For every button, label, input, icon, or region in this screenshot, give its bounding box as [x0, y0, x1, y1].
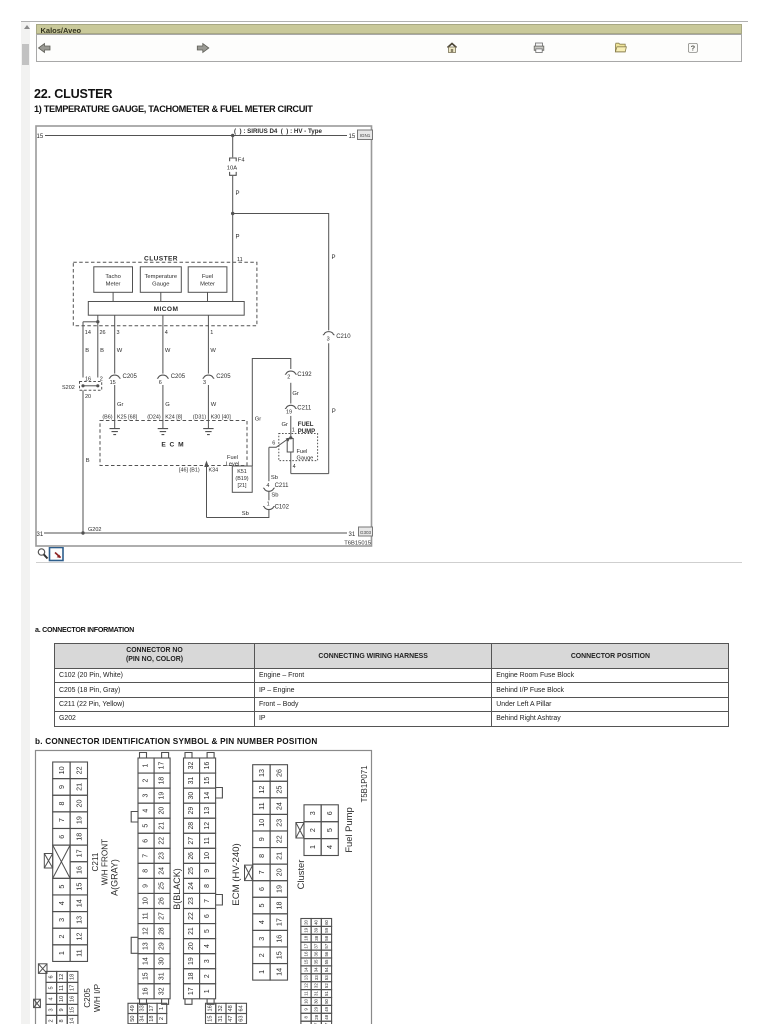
svg-text:10: 10 — [143, 897, 150, 905]
svg-text:3: 3 — [117, 330, 120, 336]
svg-text:29: 29 — [188, 807, 195, 815]
svg-text:30: 30 — [188, 792, 195, 800]
connector C102 — [263, 506, 274, 509]
svg-text:6: 6 — [143, 839, 150, 843]
svg-text:15: 15 — [37, 134, 44, 140]
svg-text:P: P — [332, 255, 336, 261]
wire C205 to ECM K25, colour Gr — [114, 385, 116, 428]
connector K51 alternate pin box — [232, 466, 252, 492]
svg-text:19: 19 — [74, 816, 83, 824]
wire to pin 14 drop — [83, 321, 98, 323]
svg-text:2: 2 — [159, 1017, 165, 1020]
svg-text:54: 54 — [324, 967, 329, 972]
scrollbar thumb — [22, 44, 29, 65]
svg-text:18: 18 — [274, 902, 283, 910]
svg-text:59: 59 — [324, 927, 329, 932]
svg-text:15: 15 — [110, 380, 116, 386]
wire MICOM pin 3 (W) — [114, 315, 116, 373]
svg-text:C102: C102 — [275, 504, 290, 510]
connector C211 W/H FRONT pin grid — [53, 762, 88, 961]
svg-text:63: 63 — [238, 1015, 244, 1021]
wire splice bus S202 — [83, 385, 98, 387]
svg-text:15: 15 — [274, 951, 283, 959]
svg-text:60: 60 — [324, 919, 329, 924]
svg-text:10: 10 — [304, 998, 309, 1003]
svg-text:CLUSTER: CLUSTER — [144, 255, 178, 262]
svg-text:K30 [40]: K30 [40] — [211, 415, 232, 421]
svg-text:W: W — [117, 348, 123, 354]
svg-text:11: 11 — [257, 802, 266, 809]
svg-text:15: 15 — [304, 959, 309, 964]
svg-text:F4: F4 — [238, 158, 246, 164]
svg-text:19: 19 — [304, 927, 309, 932]
connector C205 #2 — [157, 375, 168, 378]
svg-text:8: 8 — [59, 1019, 65, 1022]
svg-text:15: 15 — [74, 883, 83, 891]
wire C205 to ECM K30, colour W — [207, 385, 209, 428]
svg-text:31: 31 — [314, 991, 319, 996]
svg-text:( ) : SIRIUS D4 ( ) : HV -: ( ) : SIRIUS D4 ( ) : HV - Type — [234, 128, 322, 135]
svg-text:22: 22 — [188, 912, 195, 920]
wire pin 26 (B) — [97, 322, 99, 378]
separator line — [36, 562, 742, 563]
svg-text:3: 3 — [308, 811, 317, 815]
svg-text:5: 5 — [204, 929, 211, 933]
svg-text:18: 18 — [304, 935, 309, 940]
svg-text:Sb: Sb — [271, 475, 278, 481]
svg-text:G: G — [165, 402, 170, 408]
svg-text:26: 26 — [100, 330, 106, 336]
svg-text:20: 20 — [304, 919, 309, 924]
svg-text:Fuel: Fuel — [297, 449, 308, 455]
svg-text:18: 18 — [188, 972, 195, 980]
wire to fuel gauge pin 4 — [291, 473, 329, 475]
svg-text:K34: K34 — [209, 468, 219, 474]
svg-text:14: 14 — [85, 330, 91, 336]
svg-text:FUEL: FUEL — [298, 422, 314, 428]
svg-text:5: 5 — [257, 904, 266, 908]
svg-text:C205: C205 — [171, 374, 186, 380]
connector C205 W/H I/P pin grid — [46, 971, 78, 1024]
MICOM box U1 — [88, 302, 244, 316]
svg-text:G202: G202 — [88, 527, 101, 533]
junction G202 — [81, 531, 84, 534]
svg-text:58: 58 — [324, 935, 329, 940]
svg-text:5: 5 — [325, 828, 334, 832]
svg-text:13: 13 — [304, 975, 309, 980]
svg-text:6: 6 — [48, 975, 54, 978]
svg-text:15: 15 — [208, 1015, 214, 1021]
svg-text:2: 2 — [308, 828, 317, 832]
svg-text:3: 3 — [257, 937, 266, 941]
svg-text:17: 17 — [188, 987, 195, 995]
ECM dashed box — [100, 421, 247, 466]
fuse F4 top bracket — [230, 158, 237, 161]
arrowhead into ECM K34 — [204, 461, 209, 468]
svg-text:35: 35 — [314, 959, 319, 964]
connector identification diagrams — [0, 748, 768, 1024]
svg-text:27: 27 — [159, 912, 166, 920]
svg-text:25: 25 — [274, 786, 283, 794]
svg-text:10: 10 — [204, 852, 211, 860]
svg-text:10: 10 — [257, 819, 266, 827]
keying box on C205 grid — [38, 964, 47, 974]
junction node P — [231, 212, 234, 215]
svg-text:1: 1 — [308, 845, 317, 849]
svg-text:15: 15 — [143, 972, 150, 980]
svg-text:50: 50 — [324, 998, 329, 1003]
svg-text:S202: S202 — [62, 385, 75, 391]
svg-text:3: 3 — [57, 918, 66, 922]
svg-text:1: 1 — [292, 428, 295, 434]
svg-text:52: 52 — [324, 983, 329, 988]
home icon — [447, 43, 456, 52]
mounting tabs connector A — [140, 753, 169, 1005]
fuel pump dotted box — [279, 434, 318, 461]
svg-text:3: 3 — [143, 794, 150, 798]
browser frame top border — [21, 21, 748, 22]
node IGN1 box — [358, 130, 373, 140]
svg-text:18: 18 — [74, 833, 83, 841]
svg-text:G303: G303 — [360, 530, 372, 535]
svg-text:23: 23 — [159, 852, 166, 860]
section a heading — [35, 626, 134, 634]
svg-text:ECM (HV-240): ECM (HV-240) — [231, 843, 242, 905]
wire fuse to junction, colour P — [232, 176, 234, 214]
svg-text:40: 40 — [314, 919, 319, 924]
svg-text:C192: C192 — [297, 372, 312, 378]
wire C210 to fuel pump (P) — [328, 343, 330, 473]
wire temp gauge to MICOM — [160, 292, 162, 301]
ground symbol inside ECM — [158, 429, 168, 435]
svg-text:31: 31 — [218, 1015, 224, 1021]
svg-text:C205: C205 — [216, 374, 231, 380]
heading 22. CLUSTER — [34, 87, 112, 101]
svg-text:9: 9 — [257, 837, 266, 841]
svg-text:C211: C211 — [91, 852, 100, 871]
Kalos/Aveo title bar — [36, 24, 742, 34]
svg-text:10A: 10A — [227, 166, 237, 172]
svg-text:18: 18 — [70, 974, 76, 980]
svg-text:16: 16 — [143, 987, 150, 995]
svg-text:28: 28 — [159, 927, 166, 935]
svg-text:B: B — [85, 348, 89, 354]
svg-text:4: 4 — [325, 845, 334, 849]
svg-text:1: 1 — [257, 970, 266, 974]
svg-text:P: P — [236, 235, 240, 241]
svg-text:K24 [8]: K24 [8] — [165, 415, 183, 421]
connector C210 — [323, 332, 334, 335]
svg-text:17: 17 — [159, 762, 166, 770]
svg-text:2: 2 — [257, 953, 266, 957]
svg-text:1: 1 — [143, 763, 150, 767]
keying box on small grid — [296, 823, 304, 839]
svg-text:C211: C211 — [275, 483, 290, 489]
svg-text:8: 8 — [304, 1015, 309, 1018]
magnifier icon below schematic — [36, 547, 66, 563]
svg-text:39: 39 — [314, 927, 319, 932]
svg-text:C205: C205 — [123, 374, 138, 380]
help icon — [688, 43, 697, 52]
wire junction to MICOM pin 11, colour P — [232, 214, 234, 302]
svg-text:E C M: E C M — [161, 441, 184, 448]
svg-text:6: 6 — [204, 914, 211, 918]
connector C211 pin4 — [263, 488, 274, 491]
svg-text:10: 10 — [57, 766, 66, 774]
svg-text:24: 24 — [188, 882, 195, 890]
wire S202 pin 20 to G202, colour B — [82, 390, 84, 533]
svg-text:36: 36 — [314, 951, 319, 956]
connector information table — [54, 643, 729, 727]
svg-text:64: 64 — [238, 1005, 244, 1011]
svg-text:Gr: Gr — [292, 391, 299, 397]
svg-text:57: 57 — [324, 943, 329, 948]
svg-text:34: 34 — [140, 1015, 146, 1021]
svg-text:15: 15 — [70, 1007, 76, 1013]
svg-text:38: 38 — [314, 935, 319, 940]
wire fuel pump pin 6, colour Sb — [268, 447, 270, 481]
svg-text:4: 4 — [293, 464, 296, 470]
wire C205 to ECM K24, colour G — [162, 385, 164, 428]
svg-text:B: B — [86, 458, 90, 464]
svg-text:19: 19 — [274, 885, 283, 893]
svg-text:IGN1: IGN1 — [360, 133, 371, 138]
svg-text:12: 12 — [204, 822, 211, 830]
svg-text:17: 17 — [74, 849, 83, 857]
svg-text:17: 17 — [70, 985, 76, 991]
keying box on C211 grid — [44, 854, 52, 869]
svg-text:2: 2 — [143, 778, 150, 782]
svg-text:34: 34 — [314, 967, 319, 972]
cluster dashed box — [73, 262, 257, 325]
svg-text:13: 13 — [74, 916, 83, 924]
wire pin 14 (B) — [82, 322, 84, 378]
svg-text:4: 4 — [257, 920, 266, 924]
svg-text:3: 3 — [203, 380, 206, 386]
svg-text:21: 21 — [159, 822, 166, 830]
svg-text:C210: C210 — [336, 334, 351, 340]
side notches connector A — [131, 812, 138, 954]
svg-text:4: 4 — [57, 901, 66, 905]
svg-text:2: 2 — [204, 974, 211, 978]
svg-text:33: 33 — [140, 1005, 146, 1011]
svg-text:20: 20 — [159, 807, 166, 815]
svg-text:7: 7 — [57, 818, 66, 822]
svg-text:10: 10 — [59, 996, 65, 1002]
svg-text:6: 6 — [57, 835, 66, 839]
connector C211 pin19 — [285, 405, 296, 408]
svg-text:56: 56 — [324, 951, 329, 956]
svg-text:[21]: [21] — [238, 483, 247, 489]
svg-text:19: 19 — [188, 957, 195, 965]
mounting tabs connector B — [185, 753, 214, 1005]
svg-text:18: 18 — [149, 1015, 155, 1021]
svg-text:4: 4 — [266, 483, 269, 489]
svg-text:17: 17 — [304, 943, 309, 948]
svg-text:9: 9 — [304, 1008, 309, 1011]
svg-text:1: 1 — [204, 989, 211, 993]
svg-text:28: 28 — [314, 1014, 319, 1019]
svg-text:19: 19 — [159, 792, 166, 800]
svg-text:2: 2 — [57, 935, 66, 939]
svg-text:17: 17 — [149, 1005, 155, 1011]
schematic frame — [36, 126, 372, 546]
junction rail15/F4 — [231, 134, 234, 137]
svg-text:6: 6 — [272, 441, 275, 447]
svg-text:8: 8 — [143, 869, 150, 873]
svg-text:Gr: Gr — [282, 422, 289, 428]
wire C211 to fuel gauge pin 1, colour Gr — [290, 416, 292, 438]
svg-text:3: 3 — [327, 336, 330, 342]
wire tacho to MICOM — [112, 292, 114, 301]
scrollbar track — [21, 22, 30, 1024]
gauge Tacho Meter box — [94, 267, 133, 293]
svg-text:(B19): (B19) — [235, 476, 248, 482]
svg-text:Fuel: Fuel — [202, 274, 213, 280]
fit-page icon — [50, 548, 64, 561]
forward arrow icon — [197, 43, 209, 52]
svg-text:14: 14 — [304, 967, 309, 972]
svg-text:2: 2 — [287, 374, 290, 380]
svg-text:20: 20 — [188, 942, 195, 950]
keying box small bottom-left — [34, 999, 41, 1007]
svg-text:Meter: Meter — [200, 282, 215, 288]
svg-text:21: 21 — [274, 852, 283, 860]
svg-text:22: 22 — [74, 766, 83, 774]
junction S202 right — [96, 384, 99, 387]
svg-text:Gauge: Gauge — [152, 282, 169, 288]
svg-text:31: 31 — [37, 532, 44, 538]
svg-text:13: 13 — [204, 807, 211, 815]
svg-text:48: 48 — [324, 1014, 329, 1019]
back arrow icon — [38, 43, 50, 52]
svg-text:1: 1 — [267, 501, 270, 507]
svg-text:29: 29 — [314, 1006, 319, 1011]
ground symbol inside ECM — [110, 429, 120, 435]
svg-text:14: 14 — [74, 899, 83, 907]
svg-text:17: 17 — [274, 918, 283, 926]
junction S202 left — [81, 384, 84, 387]
svg-text:2: 2 — [48, 1019, 54, 1022]
svg-text:4: 4 — [143, 809, 150, 813]
svg-text:26: 26 — [274, 769, 283, 777]
side notches connector B — [216, 788, 223, 906]
svg-text:Sb: Sb — [271, 493, 278, 499]
wire fuel meter to MICOM — [207, 292, 209, 301]
svg-text:32: 32 — [188, 762, 195, 770]
scrollbar up arrow — [24, 25, 30, 29]
splice S202 dashed box — [80, 382, 102, 391]
connector 64-pin grid (16/32/48/64) — [206, 1003, 247, 1023]
wire rail 15 (IGN1) — [45, 135, 347, 137]
wire MICOM pin 4 (W) — [162, 315, 164, 373]
svg-text:47: 47 — [228, 1015, 234, 1021]
svg-text:9: 9 — [143, 884, 150, 888]
svg-text:9: 9 — [57, 785, 66, 789]
svg-text:16: 16 — [304, 951, 309, 956]
svg-text:20: 20 — [274, 868, 283, 876]
svg-text:23: 23 — [274, 819, 283, 827]
svg-text:13: 13 — [257, 769, 266, 777]
svg-text:K51: K51 — [237, 469, 247, 475]
keying box on ECM grid — [245, 865, 253, 881]
svg-text:4: 4 — [48, 997, 54, 1000]
svg-text:22: 22 — [274, 835, 283, 843]
svg-text:6: 6 — [159, 380, 162, 386]
svg-text:7: 7 — [143, 854, 150, 858]
svg-text:Meter: Meter — [106, 282, 121, 288]
svg-text:27: 27 — [188, 837, 195, 845]
svg-text:MICOM: MICOM — [154, 306, 179, 313]
wiring schematic — [0, 0, 768, 600]
ground symbol inside ECM — [203, 429, 213, 435]
svg-text:30: 30 — [159, 957, 166, 965]
svg-text:W/H FRONT: W/H FRONT — [100, 839, 109, 885]
svg-text:11: 11 — [304, 991, 309, 996]
svg-text:7: 7 — [257, 870, 266, 874]
svg-text:16: 16 — [208, 1005, 214, 1011]
wire rail to fuse F4 — [232, 136, 234, 158]
svg-text:14: 14 — [143, 957, 150, 965]
svg-text:12: 12 — [143, 927, 150, 935]
svg-text:13: 13 — [143, 942, 150, 950]
svg-text:20: 20 — [85, 394, 91, 400]
svg-text:W: W — [211, 402, 217, 408]
svg-text:53: 53 — [324, 975, 329, 980]
svg-text:3: 3 — [204, 959, 211, 963]
svg-text:12: 12 — [304, 983, 309, 988]
svg-text:Fuel: Fuel — [227, 455, 238, 461]
svg-text:T6B15015: T6B15015 — [344, 541, 371, 547]
heading 1) TEMPERATURE ... — [34, 104, 313, 114]
connector C205 #1 — [109, 375, 120, 378]
junction fuel gauge top — [289, 436, 292, 439]
svg-text:4: 4 — [165, 330, 168, 336]
folder icon — [615, 43, 626, 52]
svg-text:14: 14 — [204, 792, 211, 800]
wire C192 to C211, colour Gr — [290, 383, 292, 404]
svg-text:23: 23 — [188, 897, 195, 905]
svg-text:15: 15 — [204, 777, 211, 785]
svg-text:24: 24 — [159, 867, 166, 875]
svg-text:21: 21 — [74, 783, 83, 791]
wire ECM K34 fuel level, colour Sb — [206, 467, 208, 518]
svg-text:28: 28 — [188, 822, 195, 830]
svg-text:C205: C205 — [83, 988, 92, 1008]
svg-text:49: 49 — [130, 1005, 136, 1011]
svg-text:50: 50 — [130, 1015, 136, 1021]
svg-text:16: 16 — [74, 866, 83, 874]
svg-text:11: 11 — [74, 949, 83, 956]
svg-text:4: 4 — [204, 944, 211, 948]
svg-text:29: 29 — [159, 942, 166, 950]
gauge Temperature Gauge box — [140, 267, 181, 293]
svg-text:26: 26 — [159, 897, 166, 905]
svg-text:B: B — [100, 348, 104, 354]
svg-text:8: 8 — [57, 802, 66, 806]
svg-text:51: 51 — [324, 991, 329, 996]
svg-text:11: 11 — [204, 837, 211, 844]
svg-text:(B6): (B6) — [102, 415, 112, 421]
connector ECM (HV-240) pin grid — [253, 765, 288, 980]
svg-text:(D31): (D31) — [193, 415, 207, 421]
svg-text:P: P — [236, 191, 240, 197]
gauge Fuel Meter box — [188, 267, 227, 293]
wire fuel gauge pin 4 down — [290, 452, 292, 474]
svg-text:Gr: Gr — [255, 417, 262, 423]
svg-text:31: 31 — [349, 532, 356, 538]
svg-text:W: W — [210, 348, 216, 354]
